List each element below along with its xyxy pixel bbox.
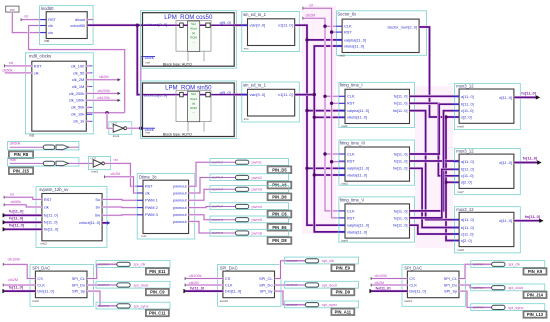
svg-text:inst9: inst9 [32,299,39,303]
svg-text:clk50k: clk50k [11,200,22,204]
connector arrow rst2 [4,64,7,67]
svg-text:spi_clk: spi_clk [322,258,334,263]
wire valpha branch Sector [307,39,342,42]
wire mux out fv[11..0] [514,161,538,164]
output pin symbol spi_dout [471,284,545,291]
wire spi1.Do out [87,284,118,286]
svg-text:OUTPUT: OUTPUT [98,304,109,308]
svg-text:clk_2M: clk_2M [72,77,84,82]
svg-text:Block type: AUTO: Block type: AUTO [163,62,192,66]
svg-text:PIN_J15: PIN_J15 [13,168,30,173]
wire III.fu to mux1.b [410,104,460,154]
block Dtime_3c [137,174,195,239]
svg-text:Sw: Sw [95,213,101,218]
svg-text:fw[11..0]: fw[11..0] [393,223,407,228]
svg-text:pwm2: pwm2 [252,175,262,180]
svg-text:rstb: rstb [10,158,16,162]
svg-text:spi_sync: spi_sync [322,302,337,307]
wire inst1 out rise to cos clock [141,57,143,129]
svg-text:d[11..0]: d[11..0] [499,160,512,165]
svg-text:Din[11..0]: Din[11..0] [37,289,53,294]
svg-text:Word: Word [190,97,197,101]
wire clk2M to Dtime.clk [105,177,143,193]
svg-text:inst: inst [145,131,150,135]
connector arrow clk200k [118,92,121,95]
wire mod50.clk to clk10k net [29,26,125,113]
svg-text:valpha[11..0]: valpha[11..0] [347,108,369,113]
wire clk100k to spi3.CS [372,277,408,279]
svg-text:spi_dout: spi_dout [134,282,150,287]
svg-text:inst2: inst2 [40,242,47,246]
pin assignment box PIN_E9 [331,265,354,271]
svg-text:CLK: CLK [347,151,355,156]
pin assignment box PIN_E6 [268,224,292,231]
connector arrow fu[11..0] [536,95,540,99]
wire Sw to Dtime.PWM3 [102,214,143,217]
svg-text:fw[11..0]: fw[11..0] [393,166,407,171]
svg-text:PIN_R8: PIN_R8 [14,152,29,157]
inverter inst1 [109,122,132,139]
wire rst branch Sector [332,31,343,33]
svg-text:clk_1k: clk_1k [73,119,84,124]
svg-text:inst3: inst3 [341,182,348,186]
wire clk2M branch firing III [325,153,345,155]
svg-text:cntout[11..0]: cntout[11..0] [79,220,100,225]
wire clk2M trunk [303,18,345,211]
svg-text:Sector_num[2..0]: Sector_num[2..0] [387,24,417,29]
svg-text:OUTPUT: OUTPUT [473,306,484,310]
svg-text:fu[11..0]: fu[11..0] [394,94,408,99]
svg-text:b[11..0]: b[11..0] [461,225,474,230]
svg-text:a[11..0]: a[11..0] [461,217,474,222]
svg-text:inst: inst [244,47,249,51]
output pin symbol pwm5 [210,216,289,223]
wire rst branch firing III [332,161,345,163]
wire mod50.divout stub [87,19,93,21]
wire mux out fu[11..0] [514,96,537,99]
wire rst to md8.RST [5,65,32,67]
svg-text:inst: inst [244,117,249,121]
svg-text:OUTPUT: OUTPUT [212,160,223,164]
junction valpha j2 [305,109,308,112]
svg-text:pwmout: pwmout [173,219,188,224]
wire cntout50 bus drop [137,25,142,94]
wire mux out fw[11..0] [514,219,540,222]
svg-text:Dtime_3c: Dtime_3c [139,174,157,179]
junction sector j2 [444,181,447,184]
junction sector j1 [444,115,447,118]
block sin_ed_to_1 [242,12,301,52]
svg-text:sin_ed_to_1: sin_ed_to_1 [243,12,266,17]
wire rst trunk [303,8,345,218]
svg-text:RST: RST [347,101,355,106]
block mux3_12 inst7 [453,149,520,195]
svg-text:OUTPUT: OUTPUT [287,303,298,307]
svg-text:SPI_Sy: SPI_Sy [72,289,85,294]
svg-text:OUTPUT: OUTPUT [212,187,223,191]
wire V.fw to mux3.c [410,225,460,234]
svg-text:v1[11..0]: v1[11..0] [278,92,293,97]
junction rst j2 [330,102,333,105]
pin assignment box PIN_A11 [331,309,354,315]
svg-text:clk100k: clk100k [8,258,21,262]
pin assignment box PIN_D5 [268,166,292,173]
svg-text:fw[11..0]: fw[11..0] [9,224,25,228]
svg-text:OUTPUT: OUTPUT [98,262,109,266]
output pin symbol spi_sync [96,302,170,309]
svg-text:inst2: inst2 [92,169,99,173]
svg-text:d[11..0]: d[11..0] [499,95,512,100]
svg-text:c[11..0]: c[11..0] [461,231,473,236]
pin assignment box PIN_D6 [268,194,292,201]
junction rst j3 [330,160,333,163]
svg-text:SPI_Do: SPI_Do [72,282,85,287]
connector arrow rst [21,18,24,21]
pin assignment box PIN_C11 [146,310,169,316]
svg-text:(s): (s) [192,101,195,105]
svg-text:s[2..0]: s[2..0] [461,115,472,120]
output pin symbol spi_dout [285,281,359,288]
svg-text:512: 512 [191,92,196,96]
svg-text:vsin[9..0]: vsin[9..0] [250,23,266,28]
pin assignment box PIN_A6 [268,182,292,189]
wire clk2M to spi2.CLK [186,284,223,286]
svg-text:pwm6: pwm6 [252,230,262,235]
wire clk2M to spi1.CLK [4,284,36,286]
svg-text:PIN_D6: PIN_D6 [272,194,287,199]
svg-text:CLK: CLK [37,282,45,287]
svg-text:PIN_C9: PIN_C9 [150,290,165,295]
svg-text:firing_time_III: firing_time_III [340,140,365,145]
svg-text:RST: RST [34,63,42,68]
svg-text:Sector_6x: Sector_6x [337,11,357,16]
wire clk2M to spi3.CLK [372,284,408,286]
svg-text:CLK: CLK [347,94,355,99]
svg-text:SPI_CL: SPI_CL [259,276,273,281]
wire spi3.CL out [459,264,492,278]
wire spi2.CL out [275,261,307,279]
wire spi3.Sy out [459,291,492,307]
svg-text:mux3_12: mux3_12 [456,207,474,212]
svg-text:rst: rst [114,158,118,162]
wire rst to svpwm.RST [5,197,42,199]
connector arrow fv-spi2 [183,289,187,293]
wire III.fv to mux2.a [410,160,460,163]
connector arrow fw[11..0] [3,227,7,231]
svg-text:b[11..0]: b[11..0] [461,102,474,107]
junction vbeta j2 [313,173,316,176]
block mod50 [40,6,94,45]
svg-text:SPI_DAC: SPI_DAC [32,265,50,270]
connector cntout arrow [107,221,110,225]
svg-text:Su: Su [95,197,100,202]
connector arrow clk50k-svpwm [4,203,7,206]
svg-text:SPI_Sy: SPI_Sy [260,289,273,294]
svg-text:PIN_L13: PIN_L13 [527,312,544,317]
svg-text:clk: clk [145,190,150,195]
junction clk2M j2 [323,95,326,98]
block mux3_12 inst8 [453,207,520,253]
svg-text:fv[11..0]: fv[11..0] [9,217,24,221]
svg-text:fv[11..0]: fv[11..0] [394,101,408,106]
svg-text:PIN_K9: PIN_K9 [528,269,543,274]
wire inst1 out to ROM clocks [127,127,143,129]
svg-text:SPI_DAC: SPI_DAC [404,265,422,270]
svg-text:OUTPUT: OUTPUT [212,176,223,180]
svg-text:CLK: CLK [344,24,352,29]
wire valpha trunk [295,25,345,225]
block firing_time_V [339,197,416,243]
connector arrow clk2M-3 [371,283,374,286]
pin assignment box PIN_L13 [524,311,547,317]
wire Dtime.pwmout to pwm3 [189,189,212,200]
svg-text:CS: CS [225,276,231,281]
svg-text:q[9..0]: q[9..0] [220,20,231,25]
svg-text:divout: divout [75,17,86,22]
svg-text:pwm3: pwm3 [252,187,262,192]
junction clock junction [139,127,142,130]
input pin symbol clk50k [8,142,79,152]
junction valpha j1 [305,38,308,41]
svg-text:spi_dout: spi_dout [508,285,524,290]
wire cntout50 bus [87,24,142,27]
svg-text:inst: inst [145,60,150,64]
wire Sector_num drop [446,117,459,241]
block firing_time_III [339,140,416,186]
block sin_ed_to_1 [242,82,301,122]
connector arrow fv[11..0] [537,160,541,164]
wire spi1.CL out [87,264,118,278]
svg-text:512: 512 [191,22,196,26]
svg-text:fu[11..0]: fu[11..0] [9,210,24,214]
junction clk2M j1 [323,25,326,28]
svg-text:clk_1M: clk_1M [72,84,84,89]
block SPI_DAC inst11 [401,265,465,307]
svg-text:s[2..0]: s[2..0] [461,180,472,185]
svg-text:clk_200k: clk_200k [69,91,84,96]
svg-text:svpwm_12b_uv: svpwm_12b_uv [39,187,69,192]
svg-text:pwmout: pwmout [173,184,188,189]
wire valpha branch firing I [307,109,345,112]
svg-text:clk: clk [48,23,53,28]
junction cntout50 junction [136,24,139,27]
wire rstb to inst2 [79,162,93,164]
wire Su to Dtime.PWM1 [102,198,143,201]
block md8_clocks [25,53,93,138]
svg-text:c[11..0]: c[11..0] [461,108,473,113]
svg-text:fv[11..0]: fv[11..0] [523,156,538,161]
wire rst to Dtime.RST [105,163,144,186]
svg-text:pwm1: pwm1 [252,160,262,165]
wire III.fw to mux3.b [410,168,460,227]
svg-text:clk: clk [34,70,39,75]
svg-text:vcc: vcc [10,8,15,12]
wire I.fu to mux1.a [410,95,460,98]
wire Dtime.pwmout to pwm6 [189,221,212,233]
svg-text:inst4: inst4 [341,239,348,243]
wire I.fv to mux2.c [410,103,460,176]
wire Sector_num bus [419,27,459,117]
svg-text:clk100k: clk100k [97,96,110,100]
output pin symbol spi_sync [471,304,545,311]
svg-text:fu[11..0]: fu[11..0] [44,213,58,218]
wire I.fw to mux3.a [410,111,460,220]
wire md8 out clk200k [86,92,118,94]
svg-text:Din[11..0]: Din[11..0] [409,289,425,294]
svg-text:fv[11..0]: fv[11..0] [44,220,58,225]
connector arrow rst-svpwm [4,196,7,199]
pin assignment box PIN_R8 [9,151,33,158]
wire valpha branch firing III [307,167,345,170]
svg-text:SPI_Do: SPI_Do [444,282,457,287]
wire md8 out stub [86,106,90,108]
svg-text:spi_clk: spi_clk [134,262,146,267]
svg-text:clk_50: clk_50 [73,70,85,75]
svg-text:spi_dout: spi_dout [322,282,338,287]
wire vbeta trunk up [314,46,342,95]
connector arrow fw[11..0] [539,219,543,223]
connector arrow clk2M-dtime [104,175,107,178]
svg-text:clk: clk [44,204,49,209]
pin assignment box PIN_K9 [524,268,547,274]
wire clk50k to md8.clk [5,72,32,74]
svg-text:PIN_A6: PIN_A6 [272,183,287,188]
svg-text:RST: RST [145,184,153,189]
connector arrow fv[11..0] [3,220,7,224]
svg-text:RST: RST [344,30,352,35]
wire md8.clk_10k out [86,112,124,114]
output pin symbol spi_clk [471,261,545,268]
ROM block LPM_ROM cos50 [140,11,236,68]
svg-text:clk2M: clk2M [111,172,121,176]
svg-text:PIN_A11: PIN_A11 [335,309,352,314]
svg-text:inst: inst [44,39,49,43]
svg-text:pwmout: pwmout [173,205,188,210]
connector arrow clk2M-1 [3,283,6,286]
connector arrow clk2M-2 [185,283,188,286]
svg-text:clk_50k: clk_50k [71,105,84,110]
svg-text:SPI_DAC: SPI_DAC [220,265,238,270]
svg-text:clk2M: clk2M [8,278,18,282]
wire clk100k to spi2.CS [186,277,223,279]
junction valpha j3 [305,167,308,170]
svg-text:rst: rst [24,15,28,19]
output pin symbol spi_clk [285,257,359,264]
block SPI_DAC inst10 [217,265,281,307]
svg-text:rst: rst [9,61,13,65]
inverter inst2 [88,157,110,174]
pin assignment box PIN_D9 [331,289,354,295]
svg-text:fw[11..0]: fw[11..0] [393,108,407,113]
svg-text:clk2M: clk2M [306,14,316,18]
svg-text:inst6: inst6 [457,125,464,129]
connector arrow fu-spi1 [2,289,6,293]
output pin symbol spi_dout [96,281,170,288]
svg-text:ROM: ROM [190,36,197,40]
wire md8 out clk100k [86,99,118,101]
svg-text:vbeta[11..0]: vbeta[11..0] [347,229,367,234]
wire Sv to Dtime.PWM2 [102,206,143,209]
svg-text:mux3_12: mux3_12 [456,149,474,154]
svg-text:inst7: inst7 [457,190,464,194]
svg-text:OUTPUT: OUTPUT [473,262,484,266]
power symbol VCC [6,6,19,12]
svg-text:vcc: vcc [59,147,64,151]
pin assignment box PIN_C9 [146,289,169,295]
svg-text:(s): (s) [192,31,195,35]
svg-text:inst10: inst10 [220,299,229,303]
wire md8 out stub [86,85,90,87]
svg-text:RST: RST [48,17,56,22]
svg-text:valpha[11..0]: valpha[11..0] [347,166,369,171]
svg-text:PIN_D5: PIN_D5 [272,167,287,172]
svg-text:fu[11..0]: fu[11..0] [394,151,408,156]
svg-text:OUTPUT: OUTPUT [473,286,484,290]
svg-text:vbeta[11..0]: vbeta[11..0] [347,172,367,177]
wire md8 out stub [86,72,90,74]
svg-text:firing_time_I: firing_time_I [340,83,363,88]
wire rst to mod50.RST [22,19,47,21]
svg-text:clk200k: clk200k [98,89,111,93]
svg-text:clk_100: clk_100 [71,63,85,68]
svg-text:clk2M: clk2M [99,75,109,79]
connector arrow clk2M trunk [303,17,306,20]
svg-text:md8_clocks: md8_clocks [29,53,51,58]
svg-text:pwmout: pwmout [173,198,188,203]
svg-text:fu[11..0]: fu[11..0] [9,286,24,290]
svg-text:inst1: inst1 [341,124,348,128]
wire clk100k to spi1.CS [4,264,36,278]
svg-text:mux3_12: mux3_12 [456,84,474,89]
svg-text:Block type: AUTO: Block type: AUTO [163,133,192,137]
output pin symbol spi_clk [96,261,170,268]
svg-text:PIN_E9: PIN_E9 [336,265,351,270]
svg-text:fw[11..0]: fw[11..0] [525,214,541,219]
connector arrow clk2M [118,78,121,81]
wire clk2M branch firing I [325,95,345,97]
svg-text:PIN_E11: PIN_E11 [149,269,166,274]
junction vbeta j0 [313,93,316,96]
wire fv to spi2.Din [185,290,223,293]
svg-text:inst8: inst8 [457,248,464,252]
wire spi2.Do out [275,284,307,286]
wire vcc to mod50.cin [12,12,46,32]
svg-text:rst: rst [309,4,313,8]
svg-text:fw[11..0]: fw[11..0] [44,227,58,232]
svg-text:Word: Word [190,27,197,31]
wire vbeta branch firing I [314,116,345,119]
svg-text:Din[11..0]: Din[11..0] [225,289,241,294]
svg-text:d[11..0]: d[11..0] [499,218,512,223]
svg-text:spi_clk: spi_clk [508,262,520,267]
wire md8 out stub [86,120,90,122]
svg-text:cntout50: cntout50 [70,23,86,28]
svg-text:s[2..0]: s[2..0] [461,238,472,243]
svg-text:valpha[11..0]: valpha[11..0] [344,37,366,42]
output pin symbol pwm3 [210,186,289,193]
svg-text:OUTPUT: OUTPUT [212,218,223,222]
wire Dtime.pwmout to pwm5 [189,215,212,220]
svg-text:clk50k: clk50k [10,142,21,146]
wire fw to spi3.Din [371,290,407,293]
ROM block LPM_ROM sin50 [140,81,236,139]
junction vbeta j1 [313,116,316,119]
wire md8 out stub [86,65,90,67]
svg-text:inst: inst [29,134,34,138]
wire Dtime.pwmout to pwm2 [189,178,212,194]
svg-text:PIN_J14: PIN_J14 [527,292,544,297]
svg-text:PWM 3: PWM 3 [145,212,158,217]
